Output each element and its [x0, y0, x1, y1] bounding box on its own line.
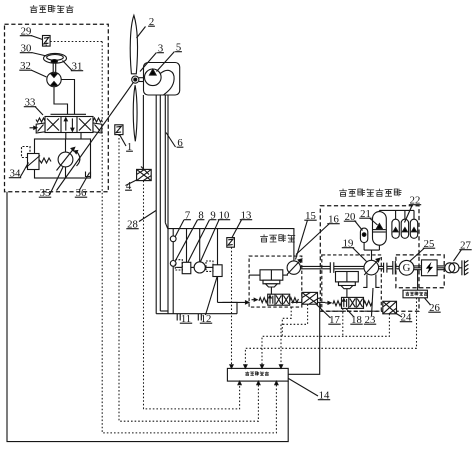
svg-text:G: G — [403, 262, 411, 274]
